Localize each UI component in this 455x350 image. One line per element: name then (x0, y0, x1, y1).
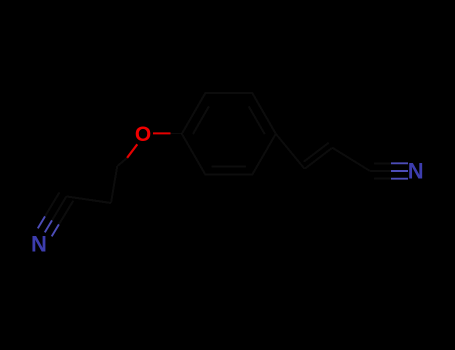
bond O-C1 (ring), dark half (169, 132, 182, 134)
double bond CH=CH second line (304, 143, 329, 162)
triple bond C#N left, blue halves (38, 216, 59, 236)
svg-text:N: N (31, 232, 47, 257)
bond C4-CH vinyl (ring to Va) (276, 134, 305, 169)
triple bond C#N right, dark halves (370, 163, 391, 178)
triple bond C#N left, dark halves (45, 192, 73, 224)
bond O-CH2 dark half to A (117, 158, 127, 166)
svg-text:N: N (408, 158, 424, 183)
bond O-C1 (ring), red half near O (153, 132, 171, 134)
bond CH2-C (B-Csp) (66, 196, 111, 203)
triple bond C#N right, blue halves (391, 163, 408, 178)
benzene ring C1-C6 (182, 93, 276, 174)
bond CH-Csp right (332, 148, 370, 171)
double bond CH=CH main line (305, 148, 333, 169)
svg-text:O: O (135, 123, 151, 146)
aromatic inner double bond lines (193, 106, 265, 166)
bond CH2-CH2 (A-B) (111, 166, 117, 203)
bond O-CH2 red half (127, 144, 137, 158)
